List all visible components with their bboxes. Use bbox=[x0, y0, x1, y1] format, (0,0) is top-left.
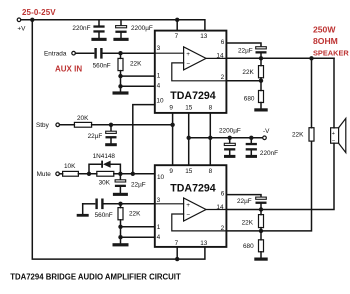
svg-text:+: + bbox=[332, 131, 336, 137]
capacitor 2200uF mid (polarized) bbox=[219, 128, 241, 158]
wire pin2 top bbox=[226, 80, 261, 82]
node junction dot pin2 top bbox=[259, 79, 263, 83]
wire 30K to pin10 bottom IC bbox=[114, 173, 155, 175]
capacitor 2200uF top (decoupling, polarized) bbox=[113, 20, 152, 41]
svg-text:6: 6 bbox=[221, 39, 225, 46]
wire +V left drop and bottom bus bbox=[32, 20, 205, 259]
svg-text:20K: 20K bbox=[77, 115, 89, 122]
svg-text:15: 15 bbox=[185, 168, 193, 175]
ground mute bbox=[113, 193, 128, 196]
wire pin9 column bbox=[172, 113, 174, 165]
node junction dot input bottom bbox=[118, 202, 122, 206]
svg-text:TDA7294: TDA7294 bbox=[170, 90, 215, 102]
wire to pin1 top IC bbox=[121, 75, 155, 77]
svg-text:22K: 22K bbox=[242, 69, 254, 76]
svg-text:22µF: 22µF bbox=[131, 181, 146, 188]
capacitor 560nF bottom bbox=[95, 199, 113, 220]
svg-text:22K: 22K bbox=[242, 220, 254, 227]
node junction dot pin8 bbox=[208, 136, 212, 140]
wire pin15 column bbox=[188, 113, 190, 165]
resistor 22K feedback bottom bbox=[242, 210, 264, 231]
svg-text:−: − bbox=[186, 212, 190, 219]
node junction dot pin9 stby bbox=[170, 123, 174, 127]
node junction dot pin1 bottom bbox=[118, 225, 122, 229]
node junction dot pin7 top bbox=[175, 18, 179, 22]
ground stby bbox=[105, 143, 117, 146]
wire Entrada to C560nF bbox=[75, 52, 93, 54]
svg-text:15: 15 bbox=[185, 105, 193, 112]
svg-text:560nF: 560nF bbox=[95, 212, 113, 219]
node junction dot speaker top bbox=[309, 56, 313, 60]
capacitor 22uF bootstrap bottom (polarized) bbox=[237, 197, 267, 209]
svg-text:−: − bbox=[186, 61, 190, 68]
wire +V rail top bbox=[21, 20, 205, 31]
svg-text:Entrada: Entrada bbox=[44, 50, 67, 57]
svg-text:30K: 30K bbox=[99, 180, 111, 187]
terminal Mute bbox=[56, 172, 60, 176]
svg-text:13: 13 bbox=[200, 33, 208, 40]
resistor 22K feedback top bbox=[242, 58, 263, 80]
wire C560nF to pin3 top IC bbox=[103, 52, 155, 54]
node junction dot mute left bbox=[87, 172, 91, 176]
node title bbox=[10, 273, 181, 282]
wire output bottom bbox=[226, 143, 334, 209]
svg-text:3: 3 bbox=[157, 197, 161, 204]
node junction dot pin4 bottom bbox=[118, 235, 122, 239]
ground input top bbox=[113, 91, 129, 94]
svg-text:14: 14 bbox=[216, 53, 224, 60]
svg-text:-V: -V bbox=[263, 128, 270, 135]
node junction dot mute pin10 bbox=[131, 172, 135, 176]
svg-text:2: 2 bbox=[221, 225, 225, 232]
node Entrada input label bbox=[44, 50, 82, 73]
node junction dot pin2 bottom bbox=[259, 229, 263, 233]
svg-text:22µF: 22µF bbox=[237, 198, 252, 205]
svg-text:220nF: 220nF bbox=[72, 25, 90, 32]
node junction dot mute right bbox=[118, 172, 122, 176]
speaker LS1 bbox=[331, 118, 346, 152]
resistor 680 bottom bbox=[243, 231, 264, 258]
svg-text:8: 8 bbox=[209, 105, 213, 112]
svg-text:6: 6 bbox=[221, 191, 225, 198]
wire to pin4 bottom IC bbox=[121, 236, 155, 238]
node junction dot +V left bbox=[30, 18, 34, 22]
wire ground to C560nF bottom bbox=[83, 203, 95, 205]
svg-text:1: 1 bbox=[157, 224, 161, 231]
svg-text:AUX IN: AUX IN bbox=[55, 65, 82, 74]
wire to pin1 bottom IC bbox=[121, 226, 155, 228]
wire pin6 bottom bbox=[226, 195, 261, 197]
wire pin7 bottom to bus bbox=[176, 247, 178, 259]
wire pin6 top bbox=[226, 43, 261, 46]
wire pin7 to +V rail bbox=[176, 20, 178, 31]
ground bottom input bbox=[77, 204, 89, 217]
node +V supply label bbox=[17, 8, 56, 33]
svg-text:2200µF: 2200µF bbox=[131, 25, 153, 32]
svg-text:9: 9 bbox=[169, 105, 173, 112]
svg-text:10K: 10K bbox=[64, 163, 76, 170]
svg-text:22K: 22K bbox=[292, 132, 304, 139]
svg-text:8OHM: 8OHM bbox=[313, 36, 338, 46]
svg-text:13: 13 bbox=[200, 240, 208, 247]
svg-text:8: 8 bbox=[209, 168, 213, 175]
resistor 30K bbox=[97, 171, 114, 186]
terminal -V bbox=[263, 128, 270, 140]
wire Stby to 20K bbox=[60, 124, 75, 126]
wire pin8 column bbox=[209, 113, 211, 165]
node Stby label bbox=[36, 122, 50, 129]
svg-text:680: 680 bbox=[243, 243, 254, 250]
wire C560nF to pin3 bottom IC bbox=[104, 203, 155, 205]
resistor 10K bbox=[63, 163, 79, 176]
capacitor 22uF bootstrap top (polarized) bbox=[238, 47, 267, 59]
svg-text:4: 4 bbox=[157, 82, 161, 89]
ground input bottom bbox=[113, 243, 129, 246]
capacitor 220nF top (decoupling) bbox=[72, 20, 106, 41]
resistor 20K bbox=[74, 115, 91, 127]
svg-text:25-0-25V: 25-0-25V bbox=[22, 8, 56, 17]
svg-text:220nF: 220nF bbox=[260, 150, 278, 157]
capacitor 22uF stby (polarized) bbox=[88, 125, 117, 143]
svg-text:250W: 250W bbox=[313, 24, 336, 34]
wire output top bbox=[226, 57, 334, 59]
svg-text:SPEAKER: SPEAKER bbox=[313, 49, 349, 58]
svg-text:+: + bbox=[186, 51, 190, 58]
node junction dot input top bbox=[118, 51, 122, 55]
resistor 22K bridge bbox=[292, 58, 314, 141]
node junction dot pin15 bbox=[187, 136, 191, 140]
svg-text:22K: 22K bbox=[130, 61, 142, 68]
terminal Entrada bbox=[72, 51, 76, 55]
ground 680 top bbox=[254, 108, 267, 111]
svg-text:3: 3 bbox=[157, 45, 161, 52]
wire -V rail bbox=[189, 137, 263, 139]
node junction dot stby bbox=[109, 123, 113, 127]
wire 20K to pin9 column bbox=[92, 124, 173, 126]
capacitor 560nF top (input coupling) bbox=[93, 48, 111, 69]
diode 1N4148 bbox=[89, 153, 120, 174]
svg-text:2200µF: 2200µF bbox=[219, 128, 241, 135]
svg-text:680: 680 bbox=[244, 96, 255, 103]
svg-text:10: 10 bbox=[157, 174, 165, 181]
svg-text:22K: 22K bbox=[129, 210, 141, 217]
node Mute label bbox=[37, 171, 52, 178]
node junction dot 2200uF mid bbox=[228, 136, 232, 140]
svg-text:Stby: Stby bbox=[36, 122, 50, 129]
svg-text:Mute: Mute bbox=[37, 171, 52, 178]
svg-text:10: 10 bbox=[156, 98, 164, 105]
svg-text:TDA7294 BRIDGE AUDIO AMPLIFIER: TDA7294 BRIDGE AUDIO AMPLIFIER CIRCUIT bbox=[10, 273, 181, 282]
wire Mute to 10K bbox=[59, 173, 62, 175]
svg-text:560nF: 560nF bbox=[93, 62, 111, 69]
svg-text:1N4148: 1N4148 bbox=[93, 153, 116, 160]
wire pin10 top IC link bbox=[133, 105, 155, 174]
node junction dot output bottom bbox=[259, 207, 263, 211]
capacitor 22uF mute (polarized) bbox=[115, 174, 146, 193]
svg-text:+V: +V bbox=[17, 26, 26, 33]
node speaker labels bbox=[313, 24, 349, 57]
terminal +V bbox=[17, 18, 21, 22]
svg-text:7: 7 bbox=[175, 240, 179, 247]
node junction dot pin7 bottom bbox=[175, 257, 179, 261]
wire pin2 bottom to bridge resistor bbox=[226, 141, 311, 231]
op-amp U2 TDA7294 bottom IC bbox=[155, 165, 227, 247]
resistor 22K input bottom bbox=[118, 204, 141, 243]
node junction dot 220nF mid bbox=[249, 136, 253, 140]
ground 680 bottom bbox=[254, 258, 267, 261]
wire 10K to 30K bbox=[78, 173, 96, 175]
svg-text:2: 2 bbox=[221, 74, 225, 81]
resistor 680 top bbox=[244, 81, 264, 109]
svg-text:+: + bbox=[186, 202, 190, 209]
wire to pin4 top IC bbox=[121, 85, 155, 87]
svg-text:1: 1 bbox=[157, 73, 161, 80]
svg-text:22µF: 22µF bbox=[88, 133, 103, 140]
svg-text:9: 9 bbox=[169, 168, 173, 175]
wire speaker plus drop bbox=[333, 58, 335, 128]
node junction dot output top bbox=[259, 56, 263, 60]
op-amp U1 TDA7294 top IC bbox=[155, 31, 227, 113]
svg-text:22µF: 22µF bbox=[238, 48, 253, 55]
svg-text:TDA7294: TDA7294 bbox=[170, 182, 215, 194]
node junction dot pin1 top bbox=[118, 74, 122, 78]
node junction dot pin4 top bbox=[118, 84, 122, 88]
capacitor 220nF mid bbox=[246, 138, 279, 158]
terminal Stby bbox=[56, 123, 60, 127]
resistor 22K input top bbox=[118, 53, 142, 91]
svg-text:4: 4 bbox=[157, 234, 161, 241]
svg-text:14: 14 bbox=[216, 204, 224, 211]
svg-text:7: 7 bbox=[175, 33, 179, 40]
